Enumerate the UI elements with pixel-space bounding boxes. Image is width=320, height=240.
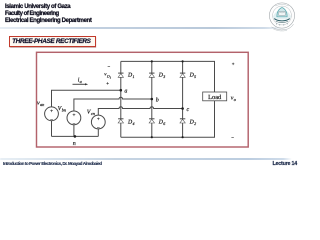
- svg-text:o: o: [234, 97, 237, 102]
- svg-text:c: c: [187, 107, 190, 113]
- diode D6: [149, 119, 154, 123]
- top bus dot at D3: [151, 60, 153, 62]
- node c junction dot: [181, 107, 184, 110]
- svg-text:6: 6: [163, 121, 165, 126]
- svg-text:+: +: [97, 117, 100, 123]
- label van: [37, 100, 44, 107]
- label D6: [158, 120, 166, 127]
- svg-text:−: −: [73, 121, 76, 127]
- bottom bus dot at D2: [182, 136, 184, 138]
- footer left: [3, 161, 102, 166]
- svg-text:+: +: [106, 82, 109, 87]
- leg c vertical wire: [182, 61, 184, 137]
- svg-text:1: 1: [133, 74, 135, 79]
- top bus wire: [121, 61, 215, 92]
- diode D5: [180, 73, 185, 77]
- source vc-n bottom stub: [97, 129, 99, 136]
- svg-text:3: 3: [163, 74, 165, 79]
- load box: [203, 92, 227, 101]
- voltage source vcn: [91, 115, 105, 129]
- neutral wire n: [52, 135, 99, 137]
- red frame around schematic: [37, 52, 249, 147]
- source va-n bottom stub: [51, 121, 53, 137]
- bottom bus wire: [121, 101, 215, 137]
- svg-text:cn: cn: [91, 111, 95, 116]
- circuit schematic: [0, 0, 300, 169]
- plus minus inside vbn: [73, 113, 76, 127]
- svg-text:n: n: [73, 141, 76, 147]
- label vo: [231, 95, 237, 102]
- svg-text:+: +: [50, 109, 53, 115]
- svg-text:a: a: [80, 79, 82, 84]
- svg-text:−: −: [231, 136, 234, 141]
- svg-text:+: +: [232, 63, 235, 68]
- svg-text:−: −: [108, 65, 111, 70]
- node n junction dot: [74, 135, 77, 138]
- node a junction dot: [120, 89, 123, 92]
- svg-text:1: 1: [110, 75, 112, 79]
- diode D2: [180, 119, 185, 123]
- label D1: [127, 72, 135, 79]
- top bus dot at D5: [182, 60, 184, 62]
- svg-text:an: an: [40, 102, 44, 107]
- bottom bus dot at D6: [151, 136, 153, 138]
- label D5: [189, 72, 197, 79]
- svg-text:b: b: [156, 96, 159, 103]
- plus minus inside van: [50, 109, 53, 123]
- svg-text:−: −: [97, 125, 100, 131]
- source vb-n bottom stub: [73, 125, 75, 137]
- svg-text:2: 2: [194, 121, 196, 126]
- label vcn: [87, 109, 95, 116]
- label D2: [189, 120, 197, 127]
- svg-text:−: −: [50, 117, 53, 123]
- phase a wire: [52, 90, 121, 107]
- label D4: [127, 120, 135, 127]
- svg-text:bn: bn: [62, 108, 66, 113]
- bottom divider line: [0, 158, 292, 160]
- footer right: [273, 161, 298, 167]
- phase b wire with hop over leg a: [74, 97, 152, 111]
- university logo: [264, 1, 300, 35]
- header line 3: [5, 18, 91, 24]
- phase c wire with hops over legs a and b: [98, 107, 182, 115]
- leg a vertical wire: [120, 61, 122, 137]
- header line 2: [5, 11, 59, 17]
- label ia: [78, 77, 82, 84]
- voltage source vbn: [67, 111, 81, 125]
- header line 1: [5, 4, 70, 10]
- label vD1 with polarity: [104, 65, 112, 87]
- leg b vertical wire: [151, 61, 153, 137]
- svg-text:5: 5: [194, 74, 196, 79]
- label D3: [158, 72, 166, 79]
- diode D1: [118, 73, 123, 77]
- plus minus inside vcn: [97, 117, 100, 131]
- node b junction dot: [151, 98, 154, 101]
- voltage source van: [45, 107, 59, 121]
- svg-text:4: 4: [133, 121, 135, 126]
- svg-text:+: +: [73, 113, 76, 119]
- svg-text:Load: Load: [208, 94, 222, 101]
- diode D4: [118, 119, 123, 123]
- svg-text:a: a: [124, 89, 127, 95]
- top divider line: [0, 27, 287, 29]
- diode D3: [149, 73, 154, 77]
- label vbn: [58, 106, 66, 113]
- current arrow ia: [73, 83, 89, 85]
- title box THREE-PHASE RECTIFIERS: [9, 36, 96, 48]
